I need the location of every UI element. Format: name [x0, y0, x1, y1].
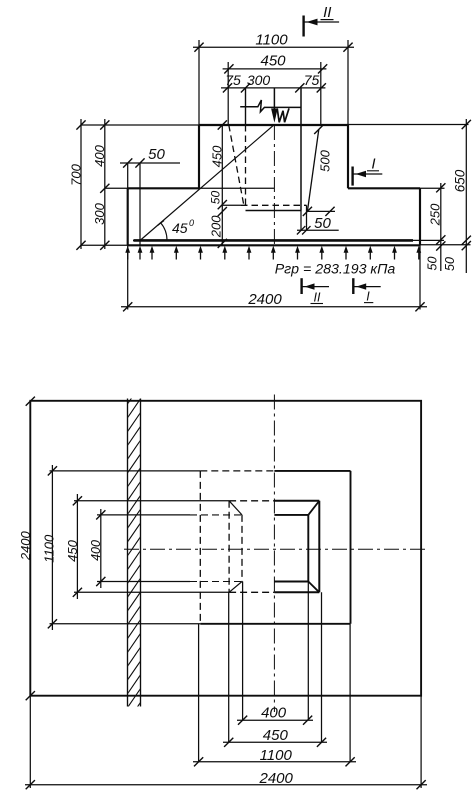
- column right edge (solid into socket): [300, 88, 302, 211]
- dim 1100 (plan bottom): [193, 747, 356, 767]
- svg-text:I: I: [366, 289, 370, 303]
- svg-text:Ргр = 283.193 кПа: Ргр = 283.193 кПа: [275, 261, 396, 277]
- section marker I (bottom): [353, 278, 380, 303]
- thin top extension to right 650 dim: [348, 124, 469, 126]
- 45 deg baseline: [133, 240, 170, 242]
- svg-text:0: 0: [189, 218, 194, 228]
- load W arrow: [271, 88, 289, 123]
- slab bottom edge: [128, 244, 420, 246]
- socket opening 450 rect: [229, 501, 319, 593]
- socket left wall (hidden, tapered): [229, 125, 244, 204]
- 1100 bottom edge: [200, 623, 350, 625]
- extension x=420 down to 2400 dim: [419, 245, 421, 309]
- svg-text:400: 400: [89, 540, 103, 561]
- dim 450 (plan left): [65, 494, 82, 599]
- svg-text:2400: 2400: [259, 770, 294, 787]
- plan extension lines (left dims): [50, 470, 201, 472]
- svg-text:450: 450: [260, 53, 286, 70]
- 1100 top edge dashed (left half): [200, 470, 274, 472]
- slab left edge: [127, 188, 129, 245]
- svg-text:650: 650: [452, 169, 467, 192]
- reinforcement mesh line: [134, 239, 414, 242]
- svg-text:II: II: [323, 4, 331, 21]
- svg-text:50: 50: [443, 257, 457, 271]
- dim 50 (column-socket gap): [297, 205, 339, 234]
- arc arrow tip: [158, 221, 165, 226]
- soil pressure arrows: [125, 246, 421, 260]
- pier right edge: [347, 125, 349, 188]
- extension x=127.7 down to 2400 dim: [127, 245, 129, 309]
- extension x=127.7 above slab: [127, 163, 129, 188]
- svg-text:500: 500: [318, 149, 333, 171]
- centerline (section): [273, 125, 275, 247]
- svg-text:50: 50: [426, 257, 440, 271]
- dim 2400 (plan bottom): [25, 770, 427, 790]
- column left edge hidden in socket (dashed): [245, 125, 247, 209]
- svg-text:I: I: [371, 156, 375, 173]
- socket bottom (hidden): [241, 204, 307, 206]
- slab top line inside to centerline: [199, 187, 274, 189]
- svg-text:75: 75: [304, 72, 320, 88]
- slab top right edge: [348, 187, 420, 189]
- svg-text:50: 50: [148, 146, 165, 163]
- slanted dim 500 (socket depth right): [303, 125, 335, 216]
- dim 75 300 75 (column and clearances): [221, 72, 326, 93]
- plan centerline horizontal: [124, 548, 427, 550]
- dim 2400 (section bottom): [121, 291, 427, 311]
- 1100 right edge: [350, 471, 352, 624]
- foundation outline: pier top edge: [199, 124, 348, 126]
- 45 deg arc: [161, 223, 168, 241]
- dim 450 (socket top width): [223, 53, 328, 74]
- svg-text:1100: 1100: [260, 747, 293, 764]
- extension bottom to left dims: [81, 244, 128, 246]
- extension bottom to right 650 dim: [420, 244, 471, 246]
- svg-text:2400: 2400: [247, 291, 282, 308]
- pier left edge: [198, 125, 200, 188]
- svg-text:450: 450: [65, 539, 80, 561]
- extension y=188.3 to left dims: [105, 187, 128, 189]
- section marker II (top): [304, 4, 340, 37]
- 45 deg spread diagonal: [140, 125, 274, 241]
- plan extension lines (bottom dims): [242, 582, 244, 721]
- plan centerline vertical: [273, 395, 275, 713]
- dim 1100 (plan left): [41, 465, 57, 630]
- svg-text:400: 400: [261, 705, 287, 722]
- extension line x=228.2 (450/75 left): [227, 62, 229, 125]
- svg-text:45: 45: [172, 220, 188, 236]
- svg-text:300: 300: [247, 72, 271, 88]
- 1100 top edge solid (right half): [274, 470, 350, 472]
- dim 450 (plan bottom): [223, 727, 327, 747]
- dim 700 (left overall height): [68, 119, 85, 250]
- svg-text:250: 250: [428, 203, 443, 226]
- svg-text:450: 450: [263, 727, 289, 744]
- slab top left edge: [128, 187, 199, 189]
- svg-text:200: 200: [208, 215, 223, 238]
- column left edge (above top): [245, 88, 247, 125]
- slab right edge: [419, 188, 421, 245]
- svg-text:300: 300: [92, 202, 107, 224]
- svg-text:400: 400: [92, 144, 107, 166]
- svg-text:50: 50: [208, 191, 222, 205]
- chain dim 400 300 (left): [92, 119, 109, 250]
- svg-text:2400: 2400: [18, 530, 33, 561]
- middle step 1100 rect: [200, 471, 350, 624]
- column break line: [240, 100, 300, 112]
- column bottom in socket: [246, 210, 302, 212]
- extension y=188.3 to right dims: [420, 187, 445, 189]
- chain dim 650 50 (far right): [443, 119, 471, 273]
- dim 400 (plan bottom): [237, 705, 313, 725]
- svg-text:50: 50: [314, 215, 331, 232]
- chain dim 250 50 (right): [426, 183, 446, 271]
- dim 50 (mesh edge offset, left): [120, 146, 180, 168]
- section marker I (mid right): [353, 156, 383, 186]
- svg-text:1100: 1100: [41, 534, 56, 563]
- chain dim 450 50 200 (socket depth): [208, 120, 227, 248]
- extension line left x=199: [198, 40, 200, 125]
- svg-text:1100: 1100: [255, 32, 288, 49]
- outer slab square 2400x2400 (left edge doubles as 2400 dim): [26, 397, 421, 701]
- svg-text:450: 450: [209, 145, 224, 167]
- svg-text:700: 700: [68, 163, 83, 185]
- mesh extension to 250 dim: [413, 239, 444, 241]
- dim 400 (plan left): [89, 509, 105, 588]
- socket bottom extension to 450 chain dim: [222, 204, 241, 206]
- socket corner bevels: [229, 501, 319, 593]
- wall strip (hatched): [128, 385, 141, 735]
- socket bottom 400 rect: [242, 515, 308, 582]
- svg-text:II: II: [314, 290, 321, 304]
- section marker II (bottom): [302, 278, 329, 304]
- dim 1100 (section top width of pier step): [193, 32, 354, 52]
- extension line x=321.8 (450/75 right): [320, 62, 322, 125]
- 1100 left edge dashed: [199, 471, 201, 624]
- thin top extension to left dims: [81, 124, 199, 126]
- extension line right x=348: [347, 40, 349, 125]
- mesh start line x=140: [139, 163, 141, 245]
